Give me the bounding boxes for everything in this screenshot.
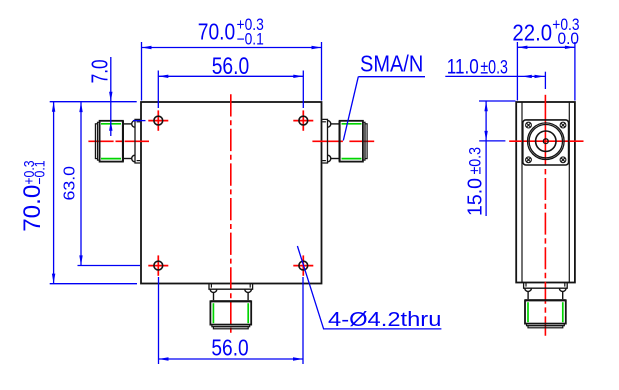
ext line body bottom-left horizontal <box>50 283 137 285</box>
svg-text:4-Ø4.2thru: 4-Ø4.2thru <box>328 309 441 331</box>
arrow 70top left <box>142 46 152 49</box>
arrow 11 right <box>535 75 545 78</box>
side body outline <box>516 102 575 283</box>
side body inner line right <box>568 102 570 283</box>
dim line 70.0 top <box>142 47 322 49</box>
ext line top56 left <box>157 71 159 109</box>
4.2thru leader and underline <box>297 246 441 329</box>
ext line center side top <box>544 72 546 89</box>
svg-text:15.0: 15.0 <box>465 178 487 216</box>
arrowheads <box>52 46 575 361</box>
bottom SMA connector side view <box>524 283 568 328</box>
red vertical centerline front <box>230 94 232 335</box>
ext line top70 right <box>321 42 323 101</box>
red horizontal centerline left connector <box>88 140 149 142</box>
dim line 7.0 vertical <box>110 57 112 136</box>
SMA/N leader <box>343 77 358 141</box>
ext line 22 left <box>516 42 518 101</box>
N connector center pin <box>543 139 548 144</box>
ext line hole topleft horizontal <box>133 120 146 122</box>
ext line 22 right <box>574 42 576 101</box>
arrow 11 left <box>522 75 532 78</box>
arrow 56bot left <box>159 357 169 360</box>
ext line side top horizontal <box>479 100 516 102</box>
red vertical centerline side upper <box>544 95 546 166</box>
svg-text:±0.3: ±0.3 <box>466 147 485 175</box>
svg-text:70.0: 70.0 <box>19 185 46 232</box>
hole bottom-left <box>148 255 168 275</box>
svg-text:56.0: 56.0 <box>212 53 250 80</box>
N connector flange plate <box>523 120 569 165</box>
arrow 22 left <box>517 46 527 49</box>
flange screw top-left <box>526 122 532 128</box>
red horizontal centerline side <box>509 140 583 142</box>
svg-text:22.0: 22.0 <box>512 19 552 45</box>
arrow 70left bottom <box>52 274 55 284</box>
dim line 70.0 left vertical <box>53 102 55 284</box>
svg-text:SMA/N: SMA/N <box>360 51 423 77</box>
arrow 56bot right <box>293 357 303 360</box>
arrow 15 bottom <box>484 131 487 141</box>
flange screw bottom-left <box>526 157 532 163</box>
svg-text:63.0: 63.0 <box>62 166 79 201</box>
arrow 63 top <box>79 102 82 112</box>
arrow 56top right <box>293 75 303 78</box>
svg-text:±0.3: ±0.3 <box>480 57 508 78</box>
ext line top56 right <box>302 71 304 109</box>
red horizontal centerline right connector <box>312 140 374 142</box>
dim line 11.0 with underline <box>445 75 545 77</box>
left SMA connector <box>95 119 140 163</box>
arrow 22 right <box>565 46 575 49</box>
svg-text:−0.1: −0.1 <box>237 31 264 49</box>
ext line bottom56 right <box>302 277 304 364</box>
svg-text:0.0: 0.0 <box>558 30 580 48</box>
svg-text:70.0: 70.0 <box>198 19 235 45</box>
svg-text:7.0: 7.0 <box>86 59 112 83</box>
body outline <box>141 102 322 284</box>
ext line top70 left <box>141 42 143 101</box>
bottom SMA connector front <box>209 284 253 329</box>
N connector inner circle <box>536 131 556 151</box>
ext line bottom56 left <box>158 277 160 364</box>
dim line 56.0 top <box>158 75 303 77</box>
dim line 56.0 bottom <box>159 358 304 360</box>
svg-text:−0.1: −0.1 <box>32 160 49 184</box>
right SMA connector <box>322 119 367 163</box>
dim line 22.0 <box>517 46 575 48</box>
ext line hole bottom-left horizontal <box>78 265 141 267</box>
svg-text:56.0: 56.0 <box>211 335 248 361</box>
red vertical centerline side lower <box>544 169 546 336</box>
hole bottom-right <box>293 255 313 275</box>
N connector second circle <box>529 125 562 158</box>
dim line 63.0 left vertical <box>80 102 82 265</box>
arrow 56top left <box>158 75 168 78</box>
flange screw bottom-right <box>560 157 566 163</box>
arrow 7.0 lower <box>109 121 112 131</box>
arrow 70left top <box>52 102 55 112</box>
arrow 15 top <box>484 101 487 111</box>
arrow 70top right <box>312 46 322 49</box>
hole top-right <box>293 110 313 130</box>
hole top-left <box>148 110 168 130</box>
arrow 63 bottom <box>79 255 82 265</box>
arrow 7.0 upper <box>109 92 112 102</box>
side body inner line left <box>521 102 523 283</box>
dim line 15.0 vertical <box>485 101 487 216</box>
ext line body top-left horizontal <box>50 101 137 103</box>
N connector outer circle <box>528 123 565 160</box>
SMA/N underline <box>358 76 425 78</box>
ext line side center horizontal <box>479 140 505 142</box>
svg-text:11.0: 11.0 <box>447 55 479 78</box>
flange screw top-right <box>560 122 566 128</box>
